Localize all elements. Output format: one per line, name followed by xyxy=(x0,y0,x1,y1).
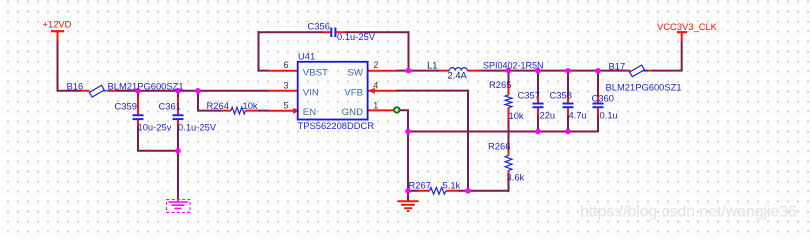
svg-text:0.1u-25V: 0.1u-25V xyxy=(178,122,217,133)
svg-text:1: 1 xyxy=(373,101,378,111)
svg-text:C359: C359 xyxy=(115,101,137,112)
svg-text:0.1u: 0.1u xyxy=(600,110,618,121)
svg-text:SPI0402-1R5N: SPI0402-1R5N xyxy=(483,61,544,71)
svg-text:2: 2 xyxy=(373,60,378,70)
svg-text:B16: B16 xyxy=(67,81,84,92)
svg-text:+12VD: +12VD xyxy=(43,19,72,30)
svg-text:4: 4 xyxy=(373,80,378,90)
svg-text:R265: R265 xyxy=(489,79,511,90)
svg-text:10k: 10k xyxy=(509,110,524,121)
svg-text:C361: C361 xyxy=(159,101,181,112)
svg-text:C357: C357 xyxy=(518,90,540,101)
svg-text:L1: L1 xyxy=(427,60,437,71)
svg-text:10u-25v: 10u-25v xyxy=(138,122,172,133)
svg-text:R267: R267 xyxy=(409,180,431,191)
svg-text:C356: C356 xyxy=(308,21,330,32)
svg-text:4.7u: 4.7u xyxy=(569,110,587,121)
svg-text:B17: B17 xyxy=(609,61,626,72)
svg-text:3: 3 xyxy=(283,80,288,90)
svg-text:2.4A: 2.4A xyxy=(448,70,468,81)
svg-text:GND: GND xyxy=(342,107,363,118)
svg-text:SW: SW xyxy=(348,67,364,78)
svg-text:C360: C360 xyxy=(592,93,614,104)
svg-text:C358: C358 xyxy=(550,90,572,101)
svg-text:6: 6 xyxy=(283,60,288,70)
svg-text:0.1u-25V: 0.1u-25V xyxy=(337,31,376,42)
svg-text:5: 5 xyxy=(283,101,288,111)
svg-text:U41: U41 xyxy=(298,51,315,62)
svg-text:VBST: VBST xyxy=(303,67,328,78)
svg-text:3.6k: 3.6k xyxy=(507,172,525,183)
svg-text:TPS562208DDCR: TPS562208DDCR xyxy=(298,120,375,131)
svg-text:https://blog.csdn.net/wangjie3: https://blog.csdn.net/wangjie36 xyxy=(580,204,797,221)
svg-text:VIN: VIN xyxy=(303,87,319,98)
svg-text:5.1k: 5.1k xyxy=(443,180,461,191)
svg-text:BLM21PG600SZ1: BLM21PG600SZ1 xyxy=(606,82,682,93)
svg-text:R264: R264 xyxy=(207,100,229,111)
svg-text:10k: 10k xyxy=(243,100,258,111)
svg-text:EN: EN xyxy=(303,107,316,118)
svg-text:BLM21PG600SZ1: BLM21PG600SZ1 xyxy=(108,81,184,92)
svg-text:VCC3V3_CLK: VCC3V3_CLK xyxy=(657,21,718,32)
svg-text:22u: 22u xyxy=(540,110,556,121)
svg-text:VFB: VFB xyxy=(344,87,363,98)
svg-text:R266: R266 xyxy=(488,141,510,152)
